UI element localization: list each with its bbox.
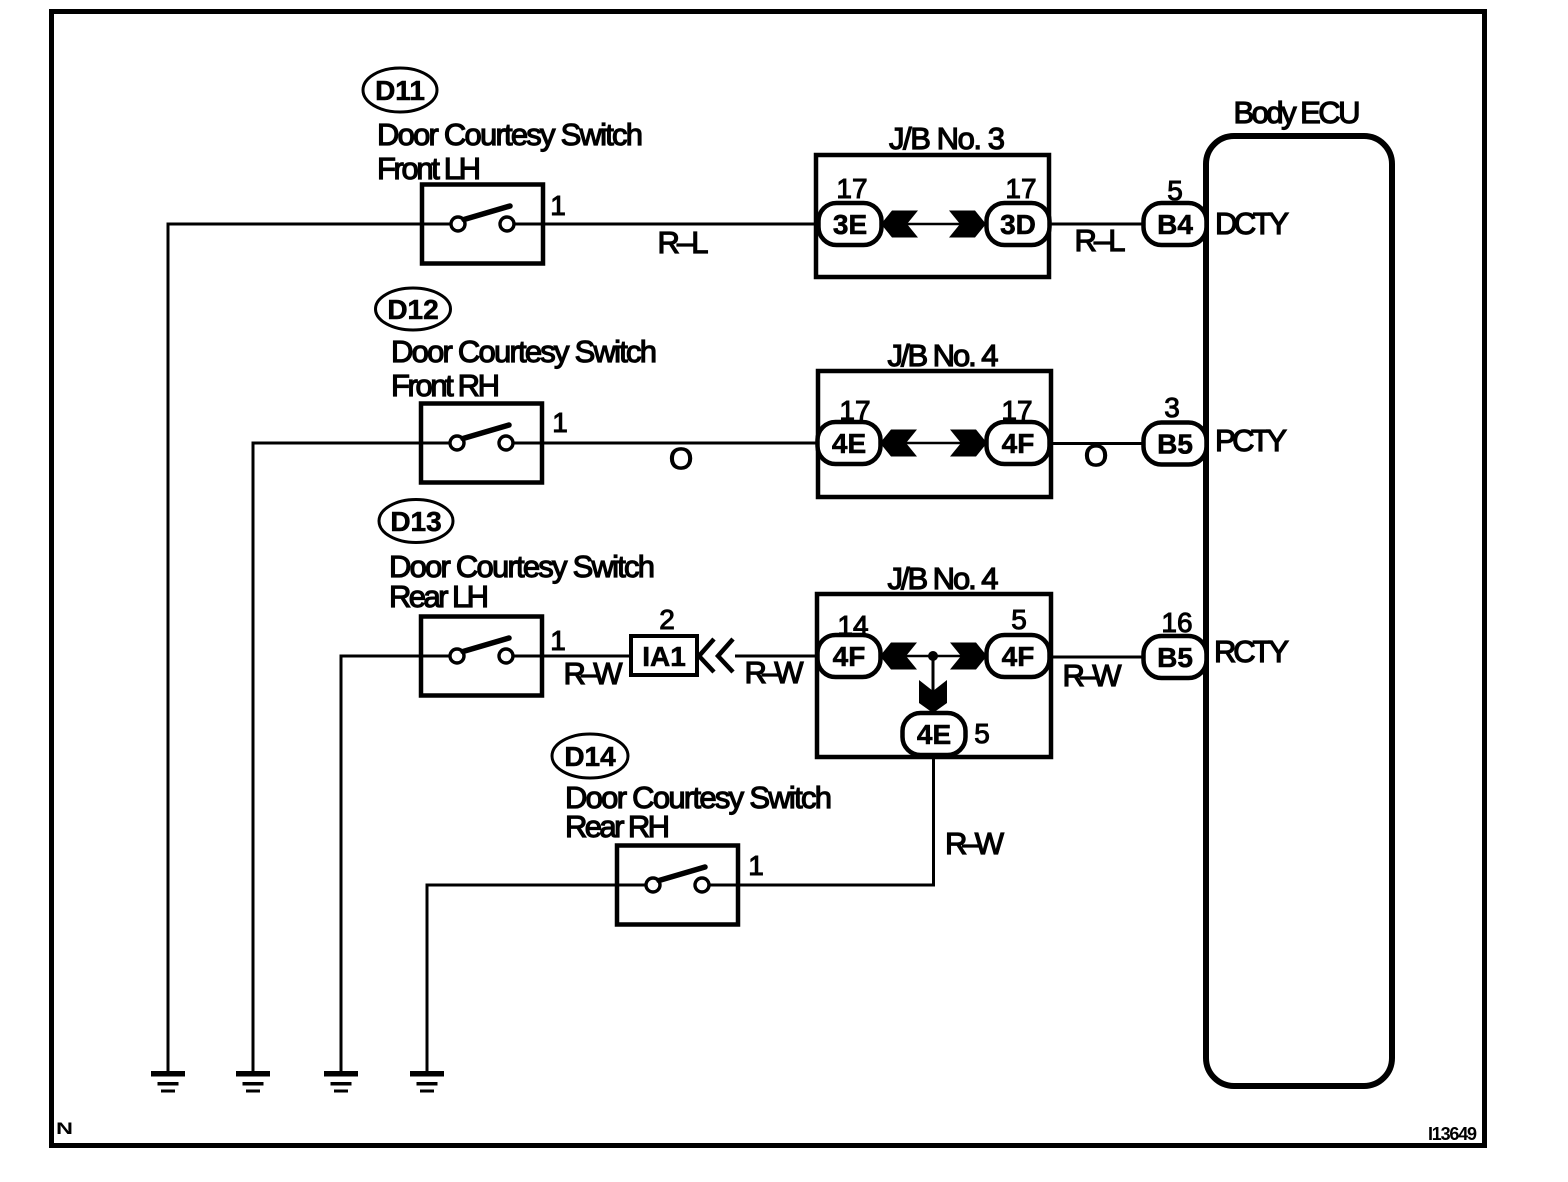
svg-text:R–L: R–L [658, 225, 709, 260]
svg-text:O: O [669, 441, 693, 476]
svg-text:1: 1 [550, 190, 566, 221]
svg-text:D14: D14 [564, 741, 616, 772]
svg-text:Front RH: Front RH [391, 368, 500, 403]
svg-text:4E: 4E [832, 428, 866, 459]
svg-text:17: 17 [839, 395, 870, 426]
svg-text:4F: 4F [1002, 428, 1035, 459]
svg-text:5: 5 [1167, 175, 1183, 206]
svg-text:IA1: IA1 [642, 641, 686, 672]
svg-text:Door Courtesy Switch: Door Courtesy Switch [377, 117, 643, 152]
svg-text:B5: B5 [1157, 429, 1193, 460]
svg-text:Door Courtesy Switch: Door Courtesy Switch [391, 334, 657, 369]
svg-text:Body ECU: Body ECU [1234, 95, 1361, 130]
svg-text:J/B No. 4: J/B No. 4 [888, 338, 999, 373]
svg-text:3E: 3E [833, 209, 867, 240]
svg-text:Front LH: Front LH [377, 151, 481, 186]
svg-text:PCTY: PCTY [1215, 423, 1287, 458]
svg-text:17: 17 [1005, 173, 1036, 204]
svg-text:R–L: R–L [1075, 223, 1126, 258]
svg-text:N: N [56, 1119, 73, 1138]
svg-text:Rear LH: Rear LH [389, 579, 489, 614]
svg-text:RCTY: RCTY [1214, 634, 1289, 669]
svg-text:4F: 4F [1002, 641, 1035, 672]
svg-text:D13: D13 [390, 506, 441, 537]
svg-text:B4: B4 [1157, 209, 1193, 240]
svg-text:O: O [1084, 438, 1108, 473]
svg-text:1: 1 [550, 625, 566, 656]
svg-text:5: 5 [1011, 604, 1027, 635]
svg-text:17: 17 [836, 173, 867, 204]
svg-text:R–W: R–W [945, 826, 1005, 861]
svg-text:R–W: R–W [564, 656, 624, 691]
svg-text:4E: 4E [917, 719, 951, 750]
svg-text:B5: B5 [1157, 642, 1193, 673]
svg-text:DCTY: DCTY [1215, 206, 1289, 241]
svg-text:1: 1 [748, 850, 764, 881]
svg-text:2: 2 [659, 604, 675, 635]
svg-text:4F: 4F [833, 641, 866, 672]
svg-text:5: 5 [974, 718, 990, 749]
svg-text:14: 14 [837, 610, 868, 641]
svg-text:3D: 3D [1000, 209, 1036, 240]
svg-text:R–W: R–W [745, 655, 805, 690]
svg-text:R–W: R–W [1063, 658, 1123, 693]
svg-text:17: 17 [1001, 395, 1032, 426]
svg-text:Rear RH: Rear RH [565, 809, 670, 844]
svg-text:D11: D11 [375, 75, 425, 106]
svg-text:3: 3 [1164, 392, 1180, 423]
svg-text:J/B No. 3: J/B No. 3 [889, 121, 1005, 156]
svg-text:J/B No. 4: J/B No. 4 [888, 561, 999, 596]
svg-text:16: 16 [1161, 607, 1192, 638]
svg-text:1: 1 [552, 407, 568, 438]
svg-text:I13649: I13649 [1428, 1124, 1477, 1144]
svg-text:D12: D12 [387, 294, 438, 325]
